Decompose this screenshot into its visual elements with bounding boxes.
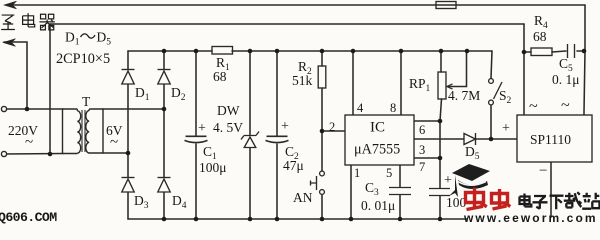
arrow to appliance top [4,1,17,9]
switch S2 lever [494,82,503,99]
watermark graduation cap [449,164,490,197]
capacitor C1 plates [185,136,208,142]
transformer core [82,110,85,152]
capacitor C5 plates [568,44,575,58]
resistor R2 [318,66,326,88]
wire pin 2 [322,130,345,132]
svg-text:RP1: RP1 [409,76,431,94]
svg-text:+: + [281,119,289,134]
svg-text:D2: D2 [171,85,186,103]
diode D3 [122,177,135,179]
svg-text:D1: D1 [65,30,80,48]
svg-text:0. 1μ: 0. 1μ [552,72,580,87]
transformer T primary winding [63,109,81,154]
svg-text:1: 1 [354,166,360,180]
svg-text:+: + [444,173,452,188]
wire pin 8 [400,51,402,115]
svg-text:T: T [82,94,91,109]
terminal circle 220V bottom [1,151,6,156]
svg-text:3: 3 [419,143,425,157]
svg-text:~: ~ [25,135,33,151]
wire D5 cathode to SP1110 plus [476,138,517,140]
chinese label to appliance (zhi dian qi) [1,13,55,30]
svg-text:~: ~ [110,135,118,151]
wire pin 6 [414,120,440,122]
capacitor C3 plates [389,188,411,195]
svg-text:4: 4 [357,101,364,115]
svg-text:2CP10×5: 2CP10×5 [56,51,110,67]
wire right leg of second rail down to R4 node and SP1110 [523,24,525,115]
svg-text:DW: DW [217,103,240,118]
svg-text:+: + [198,121,206,136]
wire 220V bottom lead [5,153,63,156]
wire positive rail y51 right of R1 [232,50,492,52]
svg-text:68: 68 [213,69,227,84]
arrow to appliance second [3,39,16,47]
svg-text:4. 7M: 4. 7M [448,88,480,103]
wire D2 D4 column [163,51,165,219]
pushbutton AN contacts [320,171,325,176]
IC box U1 [345,115,414,165]
svg-text:0. 01μ: 0. 01μ [361,198,395,213]
wire C2 column [276,51,278,219]
svg-text:~: ~ [561,97,570,114]
capacitor C2 plates [266,136,289,142]
capacitor C4 plates [429,189,450,196]
svg-text:C3: C3 [365,180,379,198]
wire RP1 C4 column [440,51,442,219]
wire left leg of second rail down to 220V bottom [49,24,51,154]
diode D2 [158,69,171,71]
wire DW zener column [249,51,251,219]
terminal circle 220V top [1,106,6,111]
svg-text:5: 5 [386,166,392,180]
wire C1 column [195,51,197,219]
potentiometer RP1 body [438,72,446,99]
svg-text:8: 8 [390,101,396,115]
svg-text:68: 68 [533,29,547,44]
svg-text:47μ: 47μ [283,158,304,173]
pushbutton AN actuator [311,176,317,190]
wire pin 7 [414,157,440,159]
svg-text:S2: S2 [499,88,512,106]
svg-text:D1: D1 [135,85,150,103]
wire D1 D3 column [127,51,129,219]
svg-text:~: ~ [529,98,538,115]
potentiometer RP1 wiper arrow [447,84,453,89]
svg-text:4. 5V: 4. 5V [213,120,243,135]
svg-text:SP1110: SP1110 [530,132,571,147]
svg-text:51k: 51k [292,73,313,88]
wire second rail [50,23,524,25]
wire top rail to appliance [6,4,585,6]
wire pin 1 [350,165,352,219]
resistor R1 [212,47,233,55]
wire pin 4 [352,51,354,115]
switch S2 contacts [489,79,494,84]
watermark chong chong red characters [466,188,511,210]
wire pin 5 C3 column [399,165,401,219]
svg-text:−: − [539,163,547,179]
wire positive rail y51 left of R1 [128,50,212,52]
svg-text:Q606.COM: Q606.COM [0,210,57,224]
svg-text:D3: D3 [134,193,149,211]
resistor R4 [531,48,552,56]
wire R4 segment [524,51,585,52]
wire right edge down from top rail [584,5,585,115]
svg-text:www.eeworm.com: www.eeworm.com [463,211,598,224]
svg-text:+: + [502,121,510,136]
wire appliance lead 2 [4,42,27,109]
wire secondary bottom lead [103,152,129,154]
fuse on top rail [436,2,456,9]
svg-text:100μ: 100μ [199,160,227,175]
transformer T secondary winding [86,109,103,153]
svg-text:7: 7 [419,160,425,174]
wire S2 column [491,51,492,139]
diode D4 [158,177,171,179]
svg-text:D5: D5 [97,30,112,48]
wire SP1110 minus lead [550,162,552,217]
diode D1 [122,69,135,71]
SP1110 box [517,115,592,162]
zener diode DW [241,132,259,140]
svg-text:100: 100 [446,195,467,210]
wire 220V top lead [5,108,63,110]
svg-text:220V: 220V [8,123,38,138]
wire RP1 wiper column [451,51,467,87]
wire secondary top lead [103,108,165,110]
wire pin 3 to D5 [414,138,464,140]
svg-text:μA7555: μA7555 [354,142,400,158]
junction dots [25,107,30,112]
watermark dianzi xiazaizhan text [520,192,600,209]
svg-text:AN: AN [293,190,313,205]
diode D5 [464,134,476,145]
svg-text:D5: D5 [465,144,480,162]
svg-text:6: 6 [419,123,425,137]
svg-text:2: 2 [329,120,335,134]
wire R2 AN column [321,51,323,219]
svg-text:IC: IC [370,120,385,136]
wire bottom ground rail [128,218,467,220]
svg-text:D4: D4 [172,193,187,211]
